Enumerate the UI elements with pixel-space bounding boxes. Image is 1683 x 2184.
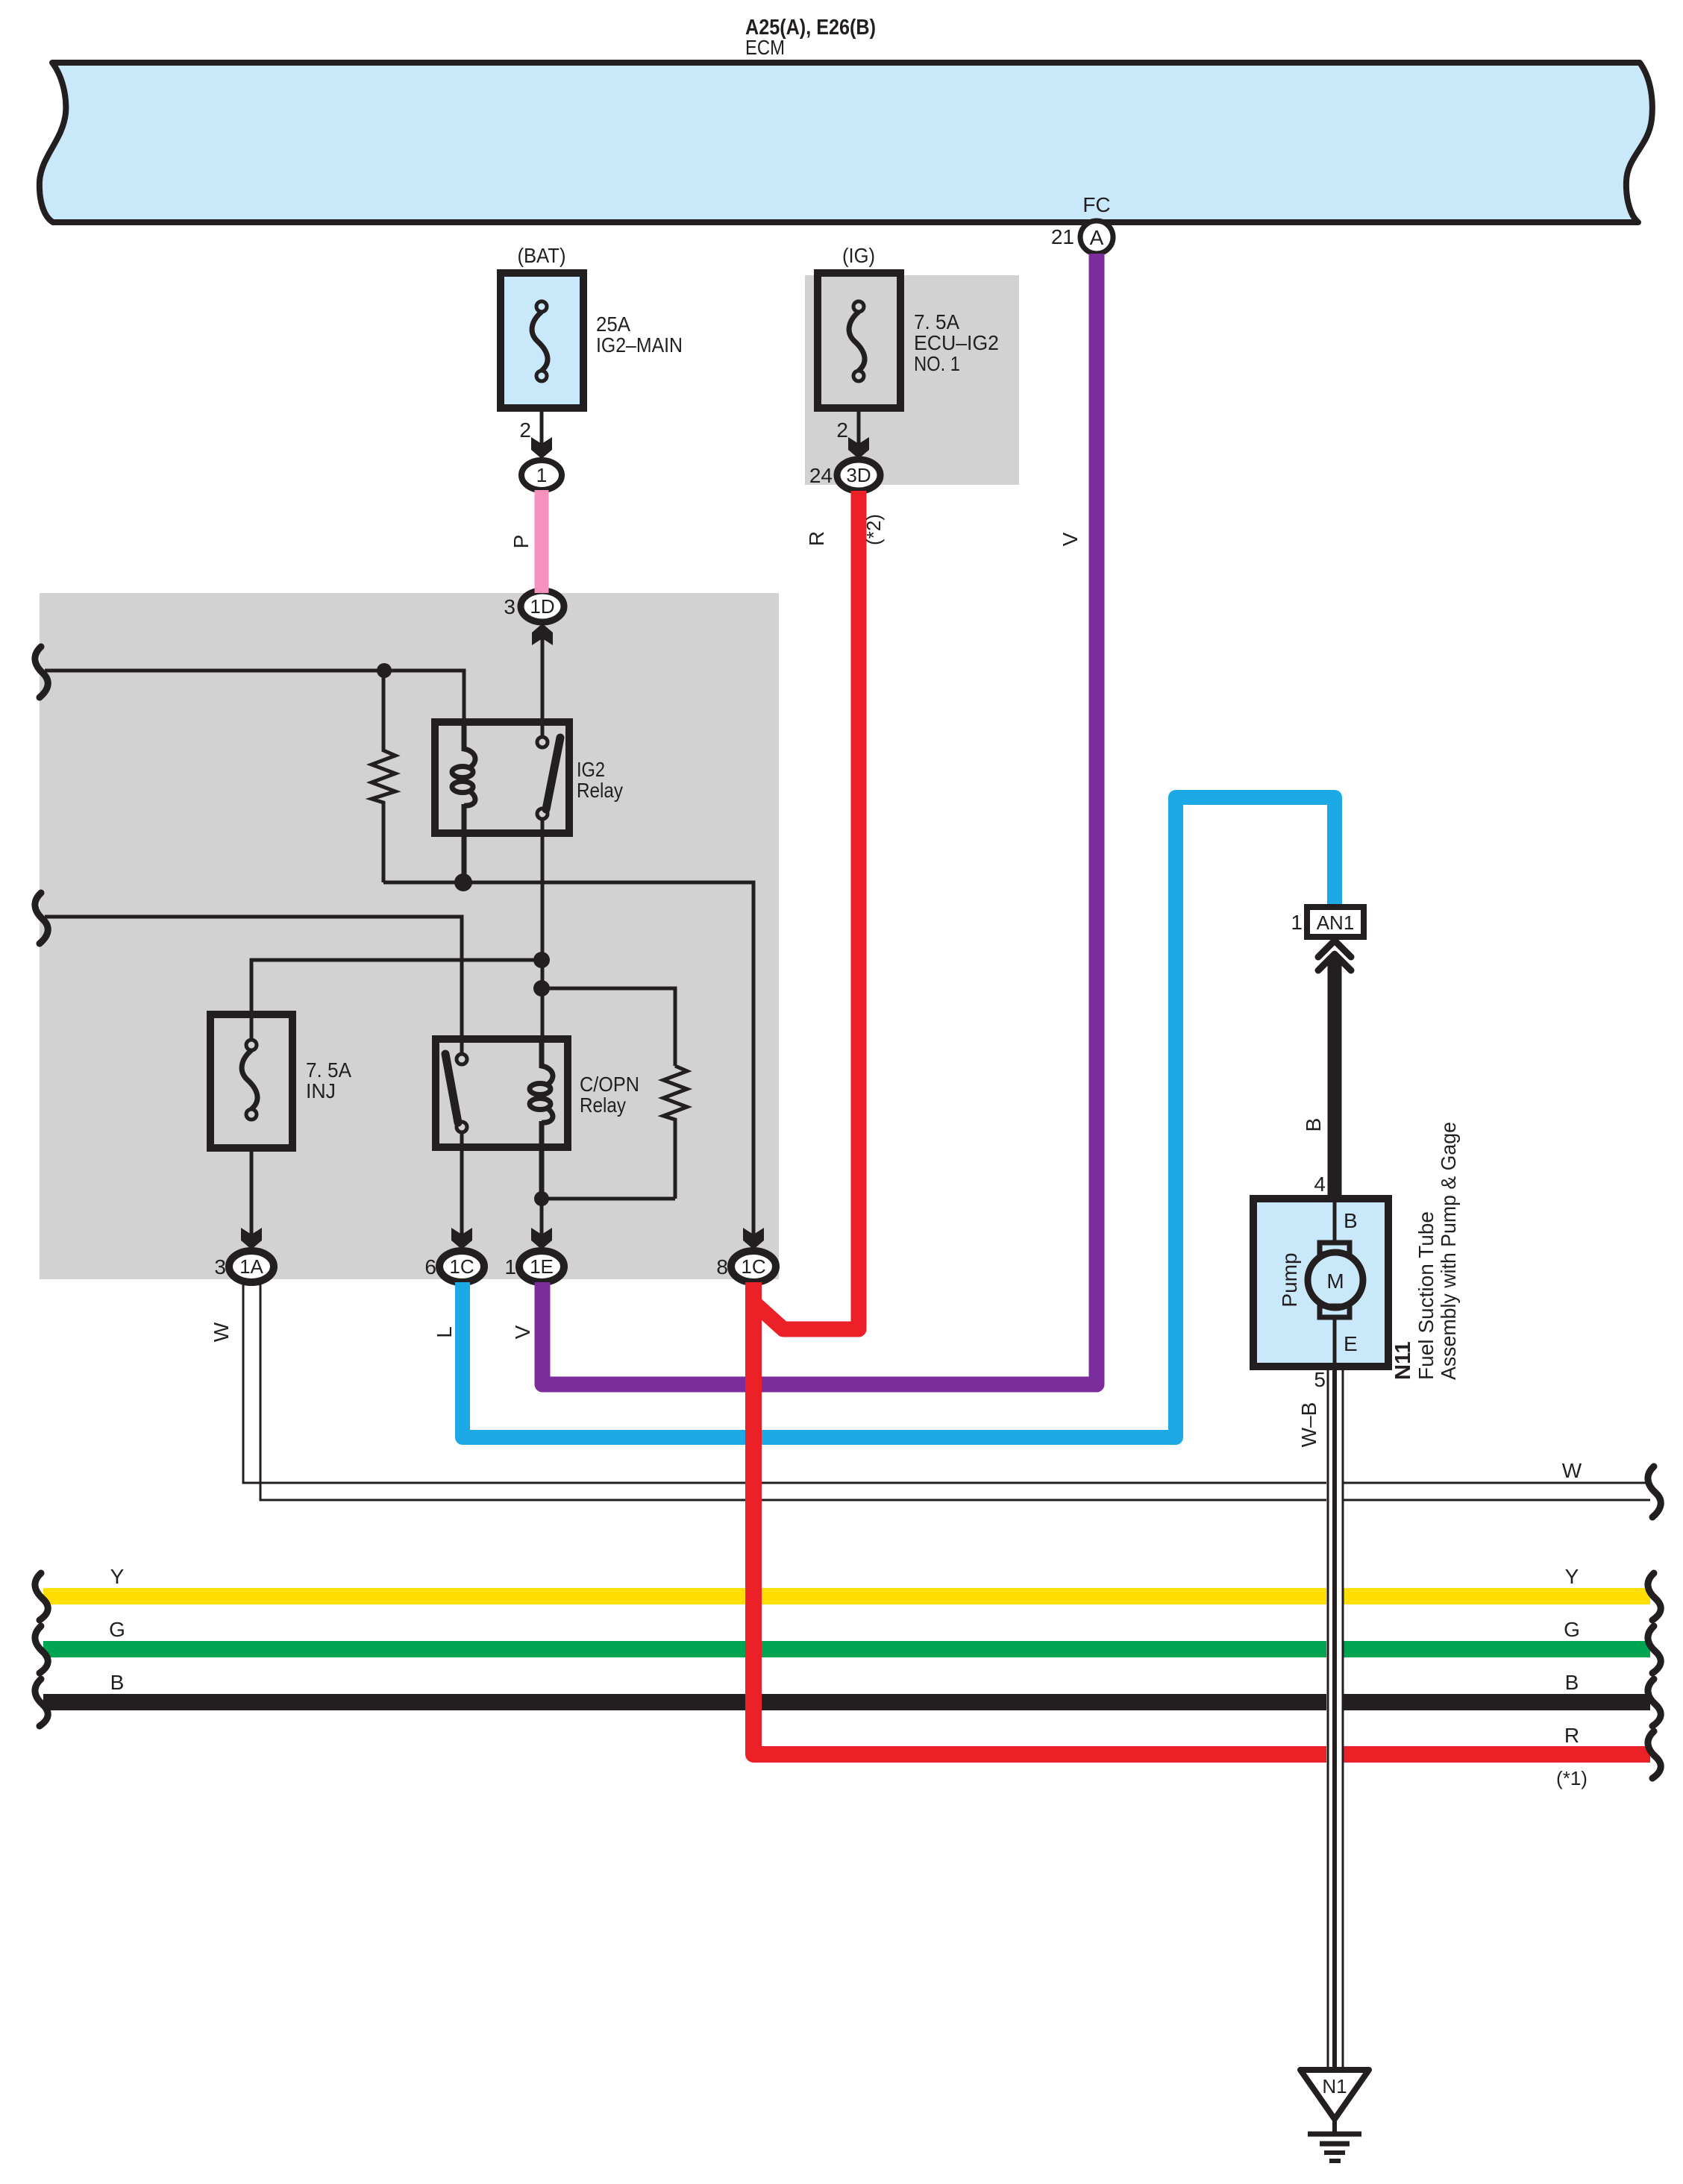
junction node: [534, 1191, 549, 1206]
svg-text:B: B: [1565, 1671, 1579, 1694]
wire 1D to IG2 relay switch: [541, 638, 545, 738]
svg-text:NO. 1: NO. 1: [914, 352, 960, 375]
wire V (violet) FC to 1E: [542, 254, 1097, 1384]
wire to IG2 relay coil: [45, 671, 464, 722]
svg-text:3: 3: [504, 595, 515, 618]
wire IG2 switch down: [541, 819, 545, 1041]
fuse 7.5A ECU-IG2 NO.1: [818, 273, 900, 408]
svg-text:IG2–MAIN: IG2–MAIN: [596, 333, 683, 357]
junction node: [533, 952, 550, 968]
ECM pin circle A (FC): [1080, 221, 1113, 254]
svg-text:IG2: IG2: [577, 758, 605, 781]
resistor parallel to IG2 coil: [372, 671, 395, 882]
connector AN1: [1307, 907, 1364, 937]
svg-text:3D: 3D: [846, 464, 871, 486]
svg-text:C/OPN: C/OPN: [580, 1073, 639, 1096]
wire fuse to pin 1: [540, 408, 544, 445]
wire coil bottom bus to 1C pin 8: [383, 882, 753, 1235]
wire G (green) bus: [43, 1641, 1650, 1657]
svg-text:1: 1: [504, 1255, 516, 1278]
wire P (pink) fuse to 1D: [535, 490, 549, 593]
wire break squiggle Y right: [1648, 1573, 1661, 1620]
svg-text:6: 6: [424, 1255, 436, 1278]
wire break squiggle G left: [35, 1626, 48, 1673]
svg-text:N11: N11: [1391, 1341, 1415, 1380]
wire to INJ fuse: [251, 960, 542, 1041]
wire fuse to pin 3D: [857, 408, 861, 445]
svg-text:AN1: AN1: [1317, 911, 1355, 934]
svg-text:W–B: W–B: [1297, 1402, 1320, 1448]
shielded arrow into AN1: [1318, 941, 1351, 970]
svg-text:B: B: [1344, 1209, 1358, 1232]
arrow into pin 1: [531, 437, 552, 459]
wire break squiggle G right: [1648, 1626, 1661, 1673]
svg-text:P: P: [510, 535, 533, 549]
svg-text:N1: N1: [1322, 2075, 1347, 2097]
svg-text:1C: 1C: [741, 1255, 765, 1278]
svg-text:(*2): (*2): [862, 514, 885, 545]
svg-text:L: L: [433, 1326, 456, 1338]
wire break squiggle Y left: [35, 1573, 48, 1620]
wire INJ fuse to 1A: [250, 1148, 254, 1235]
pump internal wire top: [1333, 1199, 1337, 1244]
svg-text:E: E: [1344, 1332, 1358, 1355]
wire B (black) AN1 to pump: [1328, 956, 1342, 1202]
svg-text:5: 5: [1314, 1368, 1326, 1391]
IG2 relay box: [435, 722, 569, 833]
svg-text:1C: 1C: [449, 1255, 474, 1278]
ECM connector band: [40, 63, 1652, 222]
svg-text:8: 8: [716, 1255, 728, 1278]
svg-text:3: 3: [214, 1255, 226, 1278]
svg-text:(BAT): (BAT): [518, 244, 566, 267]
svg-text:B: B: [110, 1671, 125, 1694]
arrow up into 1D: [532, 624, 553, 645]
ECM pin oval 1: [521, 460, 562, 490]
svg-text:Y: Y: [1565, 1565, 1579, 1588]
ECM pin oval 1E: [519, 1251, 564, 1282]
svg-text:Assembly with Pump & Gage: Assembly with Pump & Gage: [1437, 1122, 1460, 1380]
svg-text:1E: 1E: [530, 1255, 554, 1278]
ECM pin oval 3D: [837, 459, 880, 491]
wire B (black) bus: [43, 1694, 1650, 1710]
svg-text:Y: Y: [110, 1565, 125, 1588]
wire break squiggle B right: [1648, 1679, 1661, 1726]
junction node: [533, 980, 550, 997]
wire to C/OPN relay switch: [45, 917, 462, 1055]
wire break squiggle upper left: [35, 647, 48, 697]
svg-text:A: A: [1090, 226, 1104, 249]
arrow into 1A: [241, 1228, 262, 1249]
svg-text:R: R: [1564, 1724, 1579, 1747]
svg-text:ECU–IG2: ECU–IG2: [914, 331, 999, 354]
wire L (blue) 1C to AN1: [463, 797, 1335, 1437]
resistor parallel to C/OPN coil: [663, 1066, 687, 1199]
pump box N11: [1253, 1199, 1388, 1366]
svg-text:1D: 1D: [530, 595, 554, 618]
wire W (white) from 1A to right break: [243, 1282, 1650, 1483]
IG2 relay switch: [537, 737, 548, 747]
wire to C/OPN resistor: [542, 988, 675, 1066]
wire W-B pump to ground: [1326, 1370, 1344, 2070]
fuse 7.5A INJ: [210, 1014, 292, 1148]
wire Y (yellow) bus: [43, 1588, 1650, 1604]
wire C/OPN coil to 1E: [540, 1199, 544, 1235]
C/OPN relay switch: [457, 1054, 467, 1064]
junction node: [454, 873, 472, 891]
svg-text:FC: FC: [1082, 193, 1110, 216]
wire resistor bottom to coil bottom: [542, 1197, 675, 1201]
arrow into 1C pin 6: [451, 1228, 472, 1249]
wire R (red) 1C pin 8 to bus: [753, 1282, 1650, 1754]
svg-text:R: R: [805, 531, 828, 546]
ECM pin oval 1A: [229, 1251, 274, 1282]
IG2 relay coil: [464, 722, 475, 768]
ECM pin oval 1C pin 8: [731, 1251, 776, 1282]
svg-text:24: 24: [809, 464, 833, 487]
svg-text:V: V: [1059, 532, 1082, 546]
fuse 25A IG2-MAIN: [501, 273, 583, 408]
arrow into pin 3D: [848, 437, 869, 459]
wire break squiggle R right: [1648, 1731, 1661, 1778]
svg-text:2: 2: [519, 418, 531, 442]
svg-text:Relay: Relay: [580, 1093, 626, 1117]
motor brush top: [1320, 1243, 1350, 1254]
svg-text:(IG): (IG): [842, 244, 875, 267]
pump internal wire bottom: [1333, 1317, 1337, 1366]
svg-text:INJ: INJ: [306, 1079, 336, 1102]
svg-text:B: B: [1302, 1118, 1325, 1132]
arrow into 1E: [531, 1228, 552, 1249]
gray relay block box: [40, 593, 779, 1279]
svg-text:ECM: ECM: [745, 36, 785, 59]
svg-text:25A: 25A: [596, 313, 630, 336]
motor brush bottom: [1320, 1306, 1350, 1317]
junction node: [377, 663, 392, 678]
svg-text:Fuel Suction Tube: Fuel Suction Tube: [1414, 1211, 1438, 1380]
svg-text:4: 4: [1314, 1173, 1326, 1196]
svg-text:21: 21: [1051, 225, 1074, 248]
ECM pin oval 1D: [521, 591, 564, 622]
ground N1: [1300, 2070, 1369, 2161]
svg-text:7. 5A: 7. 5A: [306, 1058, 351, 1082]
wire break squiggle B left: [35, 1679, 48, 1726]
svg-text:W: W: [1562, 1459, 1582, 1482]
wire C/OPN switch to 1C: [460, 1132, 464, 1235]
ECM pin oval 1C pin 6: [439, 1251, 484, 1282]
svg-text:7. 5A: 7. 5A: [914, 310, 959, 333]
svg-text:G: G: [109, 1618, 125, 1641]
C/OPN relay box: [436, 1039, 568, 1147]
arrow into 1C pin 8: [743, 1228, 764, 1249]
svg-text:W: W: [210, 1322, 233, 1342]
svg-text:1: 1: [1291, 911, 1303, 934]
svg-text:1A: 1A: [239, 1255, 263, 1278]
wire break squiggle right end of W: [1648, 1466, 1661, 1517]
svg-text:V: V: [511, 1325, 534, 1339]
svg-text:1: 1: [536, 464, 547, 486]
motor M: [1308, 1252, 1363, 1308]
svg-text:Relay: Relay: [577, 779, 623, 802]
svg-text:Pump: Pump: [1278, 1252, 1301, 1307]
C/OPN relay coil: [542, 1039, 553, 1085]
wire R (red) from 3D jog: [752, 491, 859, 1329]
gray IG fuse box: [805, 275, 1019, 485]
wire break squiggle lower left: [35, 893, 48, 944]
svg-text:(*1): (*1): [1556, 1767, 1588, 1789]
svg-text:G: G: [1564, 1618, 1580, 1641]
svg-text:2: 2: [836, 418, 848, 442]
svg-text:M: M: [1326, 1270, 1344, 1293]
